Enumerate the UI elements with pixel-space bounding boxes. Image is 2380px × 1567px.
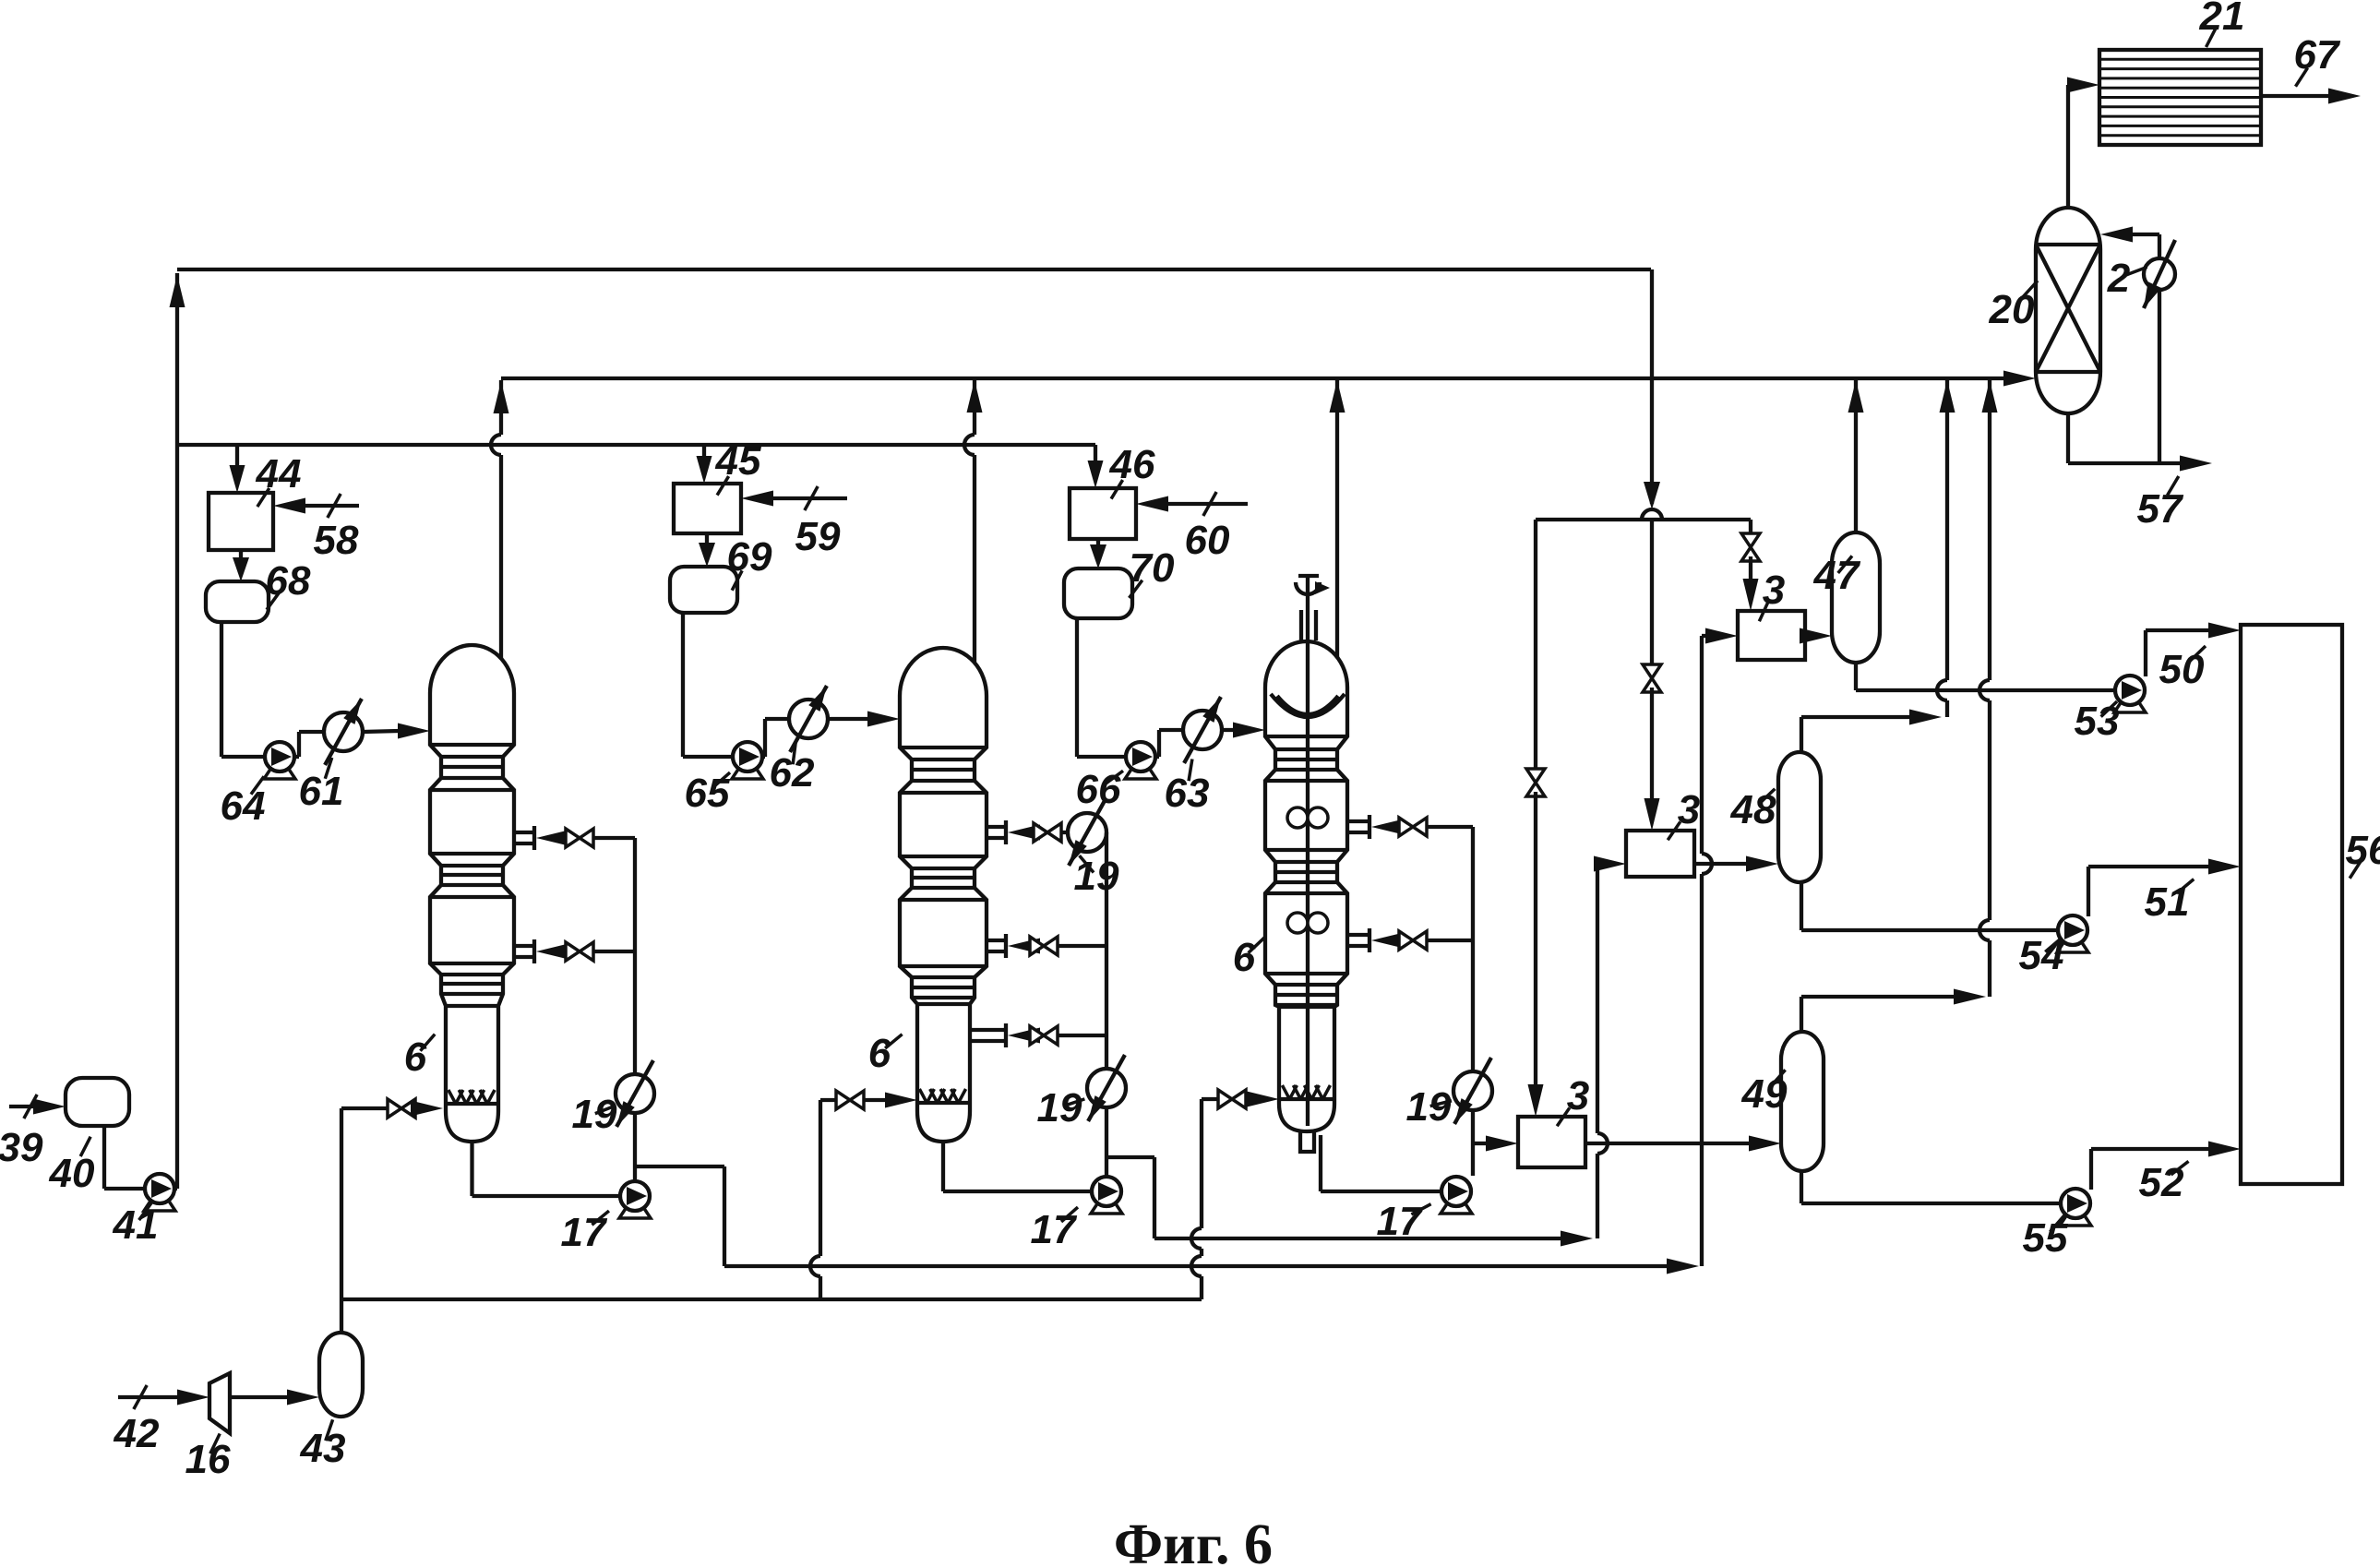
- svg-text:62: 62: [770, 750, 815, 795]
- svg-text:41: 41: [113, 1202, 159, 1248]
- svg-text:19: 19: [1037, 1085, 1082, 1130]
- svg-text:57: 57: [2137, 486, 2184, 532]
- svg-text:69: 69: [727, 534, 772, 580]
- svg-text:49: 49: [1741, 1071, 1788, 1117]
- svg-text:52: 52: [2139, 1160, 2184, 1205]
- svg-text:58: 58: [314, 518, 359, 563]
- svg-text:39: 39: [0, 1125, 43, 1170]
- svg-text:64: 64: [221, 783, 266, 829]
- svg-text:19: 19: [572, 1092, 617, 1137]
- svg-text:66: 66: [1076, 767, 1121, 812]
- svg-text:16: 16: [185, 1437, 231, 1482]
- svg-text:61: 61: [299, 769, 344, 814]
- svg-text:51: 51: [2145, 879, 2190, 925]
- svg-text:47: 47: [1813, 553, 1861, 598]
- svg-text:40: 40: [49, 1151, 95, 1196]
- svg-text:44: 44: [256, 451, 302, 496]
- svg-text:46: 46: [1109, 442, 1155, 487]
- svg-text:6: 6: [404, 1035, 427, 1080]
- svg-text:6: 6: [1233, 935, 1256, 980]
- svg-text:59: 59: [795, 514, 841, 559]
- svg-text:68: 68: [266, 558, 311, 604]
- svg-text:19: 19: [1406, 1084, 1452, 1130]
- svg-text:70: 70: [1130, 545, 1175, 591]
- svg-text:19: 19: [1074, 854, 1119, 899]
- svg-text:55: 55: [2023, 1215, 2068, 1261]
- svg-text:Фиг. 6: Фиг. 6: [1114, 1513, 1273, 1567]
- svg-text:42: 42: [114, 1411, 160, 1456]
- svg-text:45: 45: [715, 438, 761, 484]
- svg-text:17: 17: [1377, 1199, 1424, 1244]
- svg-text:63: 63: [1165, 771, 1210, 816]
- svg-text:67: 67: [2294, 32, 2341, 78]
- svg-text:6: 6: [868, 1031, 891, 1076]
- svg-text:21: 21: [2199, 0, 2245, 39]
- svg-text:56: 56: [2346, 828, 2380, 873]
- svg-text:60: 60: [1185, 518, 1230, 563]
- svg-text:3: 3: [1567, 1073, 1589, 1118]
- svg-text:43: 43: [300, 1426, 346, 1471]
- svg-text:2: 2: [2107, 256, 2131, 301]
- svg-text:3: 3: [1678, 787, 1700, 832]
